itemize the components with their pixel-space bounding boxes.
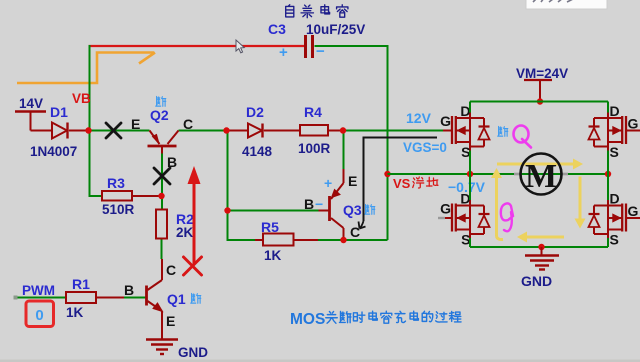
svg-text:S: S — [610, 144, 619, 160]
junction dot R3 node — [158, 193, 164, 199]
power terminal 14V — [15, 110, 46, 112]
diode D1 1N4007 — [52, 123, 67, 139]
wire bottom-left drain — [469, 174, 471, 200]
svg-text:GND: GND — [521, 273, 552, 289]
svg-text:E: E — [166, 313, 175, 329]
transistor Q3 — [328, 196, 331, 221]
svg-text:G: G — [628, 203, 639, 219]
wire VS node to Q3 collector node — [344, 239, 388, 241]
wire Q2 collector to D2 — [179, 130, 228, 132]
wire motor rail — [388, 173, 609, 175]
svg-text:+: + — [279, 44, 288, 61]
svg-text:+: + — [324, 175, 332, 191]
MOSFET Q_HB top-right — [625, 116, 627, 144]
wire bottom-right drain — [607, 174, 609, 200]
wire Q1 emitter to GND — [161, 311, 163, 340]
svg-text:D: D — [460, 191, 470, 207]
svg-text:VGS=0: VGS=0 — [403, 140, 447, 155]
wire R1 to Q1 base — [96, 297, 124, 299]
junction dot right leg motor — [605, 171, 611, 177]
wire R5 right lead — [294, 239, 319, 241]
wire top-right source to motor rail — [607, 151, 609, 175]
svg-text:D: D — [610, 191, 620, 207]
junction dot ground rail — [538, 244, 544, 250]
resistor R5 1K — [263, 234, 294, 246]
svg-text:G: G — [440, 201, 451, 217]
svg-text:E: E — [348, 173, 357, 189]
svg-text:VB: VB — [72, 91, 91, 106]
black annotation bracket arrow — [364, 138, 438, 222]
svg-text:2K: 2K — [176, 225, 194, 240]
transistor Q2 — [148, 145, 177, 148]
svg-text:0: 0 — [35, 307, 43, 324]
junction dot Q3 collector node — [340, 237, 346, 243]
MOSFET Q_LB bottom-right — [625, 204, 627, 232]
svg-text:C: C — [183, 116, 193, 132]
transistor Q1 — [145, 286, 148, 306]
junction dot VB node — [85, 127, 91, 133]
svg-text:PWM: PWM — [22, 283, 55, 298]
mouse cursor — [236, 40, 244, 53]
wire top-left source to motor rail — [469, 151, 471, 175]
black X break mark 1 — [106, 123, 121, 138]
svg-text:10uF/25V: 10uF/25V — [306, 22, 365, 37]
svg-text:C: C — [166, 262, 176, 278]
svg-text:R4: R4 — [304, 104, 322, 120]
svg-text:D: D — [610, 103, 620, 119]
diode D2 4148 — [248, 124, 262, 138]
bottom-left gate stub — [438, 217, 445, 219]
wire R2 to Q1 collector — [161, 239, 163, 260]
red annotation arrow — [193, 181, 196, 264]
wire gate node down to Q3 emitter — [343, 131, 345, 170]
svg-text:MOS: MOS — [290, 311, 325, 328]
junction dot gate node — [340, 127, 346, 133]
wire PWM to R1 — [16, 297, 66, 299]
svg-text:R5: R5 — [261, 219, 279, 235]
wire D2 node down to R5 node — [228, 131, 256, 241]
svg-text:D2: D2 — [246, 104, 264, 120]
motor M — [514, 173, 521, 176]
wire Q3 collector down to node — [343, 228, 345, 240]
black X break mark 2 — [154, 168, 170, 184]
svg-text:B: B — [304, 196, 314, 212]
svg-text:E: E — [131, 116, 140, 132]
resistor R4 100R — [300, 125, 328, 136]
svg-text:−: − — [315, 196, 323, 212]
orange annotation trace with arrow — [17, 53, 154, 84]
svg-text:GND: GND — [178, 345, 208, 360]
svg-text:D: D — [460, 103, 470, 119]
wire C3 right to VS vertical — [315, 46, 388, 240]
resistor R3 510R — [102, 191, 132, 201]
wire VB down to R3 — [90, 131, 103, 197]
magenta Q mark — [514, 126, 529, 143]
wire bottom-right gate to edge — [626, 217, 640, 219]
svg-text:Q1: Q1 — [167, 291, 186, 307]
svg-text:M: M — [525, 158, 557, 195]
junction dot Q3 base node — [224, 207, 230, 213]
wire Q2 base down to R2 — [161, 147, 163, 154]
svg-text:D1: D1 — [50, 104, 68, 120]
svg-text:R3: R3 — [107, 175, 125, 191]
svg-text:1K: 1K — [66, 305, 84, 320]
svg-text:100R: 100R — [298, 141, 331, 156]
svg-text:S: S — [610, 232, 619, 248]
svg-text:G: G — [440, 113, 451, 129]
wire top-right gate to edge — [626, 130, 640, 132]
svg-text:14V: 14V — [19, 96, 43, 111]
wire top-left gate green — [498, 126, 508, 136]
red X over arrow — [184, 257, 202, 275]
wire gate drive 12V line — [343, 130, 443, 132]
white tooltip box fragment — [526, 0, 607, 9]
wire bottom rail — [470, 246, 608, 248]
svg-text:VS: VS — [393, 176, 411, 191]
MOSFET Q_HA top-left — [451, 116, 453, 144]
magenta scribble — [501, 203, 513, 231]
resistor R2 2K — [156, 210, 167, 239]
wire top rail — [470, 101, 608, 103]
wire D2 anode lead — [227, 130, 249, 132]
svg-text:4148: 4148 — [242, 144, 273, 159]
wire D2 cathode to R4 — [264, 130, 300, 132]
svg-text:12V: 12V — [406, 110, 432, 126]
junction dot Q2 collector node — [223, 127, 229, 133]
wire R3 to node — [132, 195, 160, 197]
red wire VB to C3 — [89, 45, 305, 47]
resistor R1 1K — [66, 292, 96, 303]
svg-text:R1: R1 — [72, 276, 90, 292]
wire top-left drain — [469, 102, 471, 113]
wire D1 junction to Q2 emitter — [89, 130, 150, 132]
wire top-right drain — [607, 102, 609, 113]
junction dot VS node — [384, 171, 390, 177]
svg-text:VM=24V: VM=24V — [516, 66, 568, 81]
wire bottom-right source to ground rail — [607, 238, 609, 247]
wire R5 left lead — [255, 239, 263, 241]
svg-text:−: − — [316, 43, 325, 60]
PWM value box 0 — [26, 301, 54, 327]
svg-text:510R: 510R — [102, 202, 135, 217]
wire node to Q3 base — [228, 210, 319, 212]
ground Q1 — [146, 338, 178, 340]
wire R4 right lead — [328, 130, 343, 132]
MOSFET Q_LA bottom-left — [451, 204, 453, 232]
svg-text:Q2: Q2 — [150, 107, 169, 123]
label bootstrap capacitor — [286, 5, 294, 17]
junction dot VM rail — [537, 98, 543, 104]
svg-text:G: G — [628, 116, 639, 132]
svg-text:1N4007: 1N4007 — [30, 144, 77, 159]
svg-text:Q3: Q3 — [343, 202, 362, 218]
junction dot left leg motor — [467, 171, 473, 177]
svg-text:B: B — [124, 282, 134, 298]
svg-text:1K: 1K — [264, 248, 282, 263]
yellow current loop arrows — [497, 163, 576, 166]
wire VB vertical — [89, 45, 91, 131]
svg-text:C3: C3 — [268, 21, 286, 37]
ground H-bridge — [541, 247, 543, 256]
wire bottom-left source to ground rail — [469, 238, 471, 247]
